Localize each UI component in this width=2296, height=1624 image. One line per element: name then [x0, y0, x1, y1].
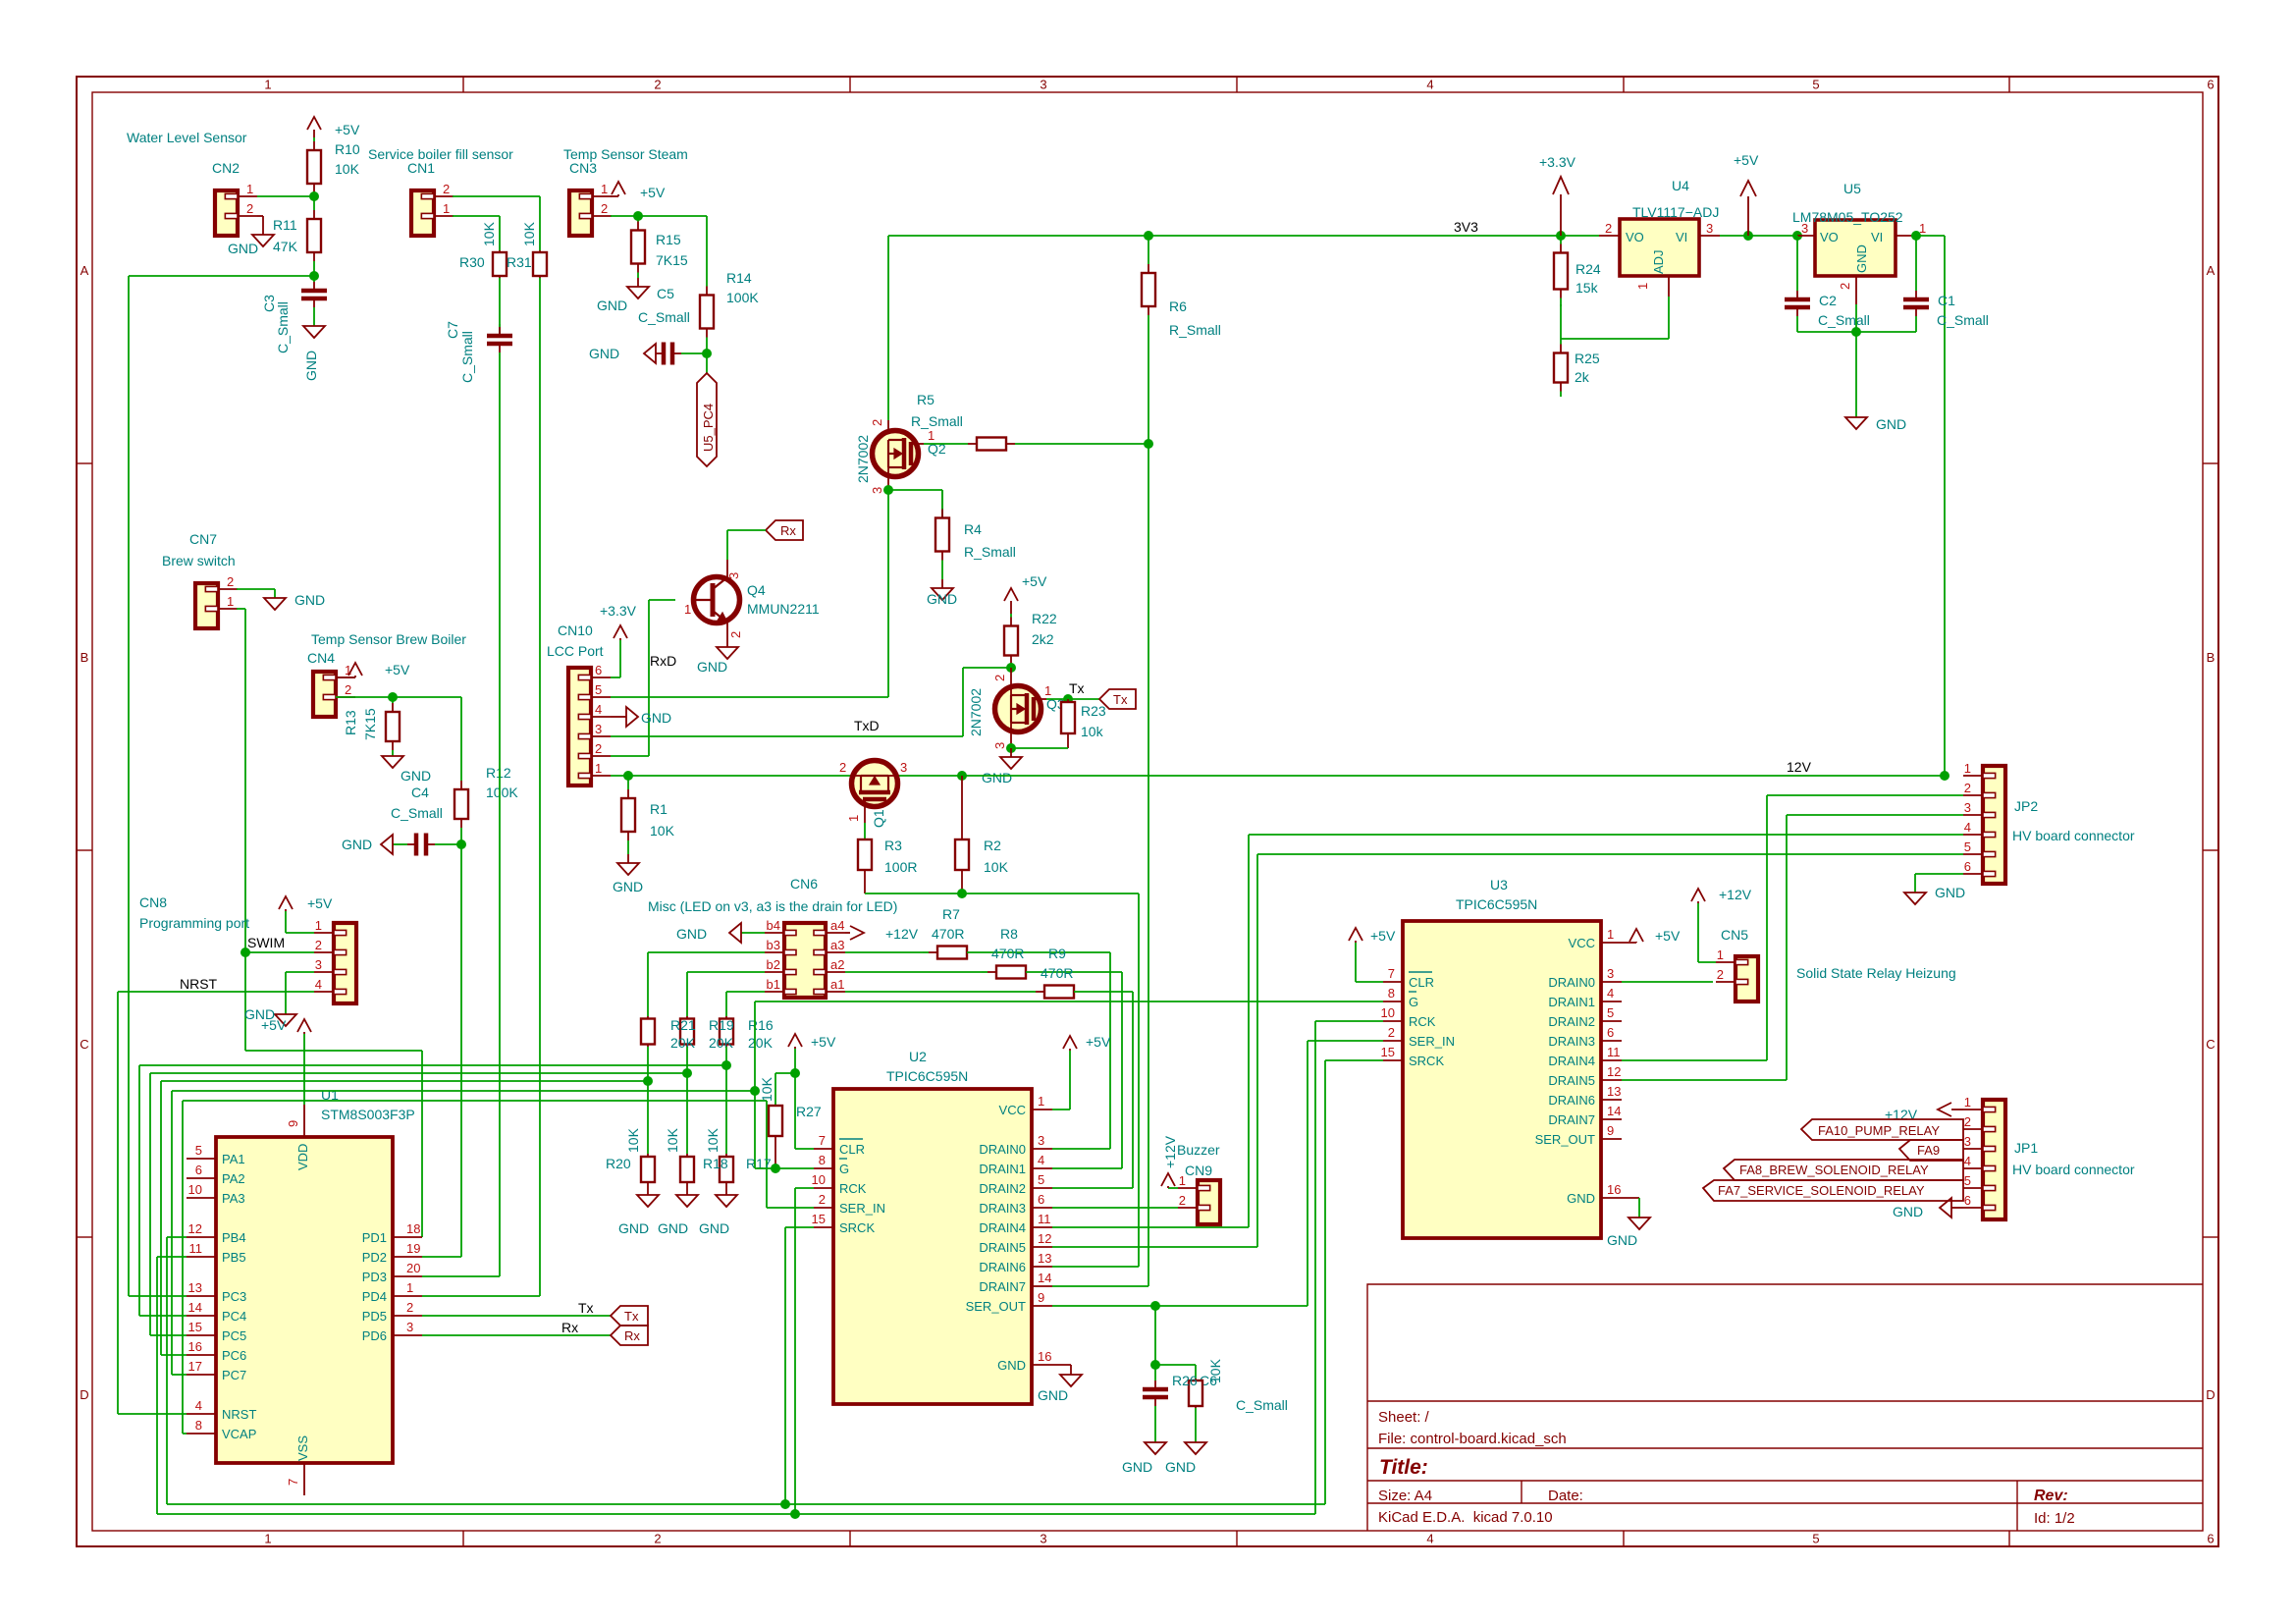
svg-text:6: 6: [1607, 1025, 1614, 1040]
svg-text:VI: VI: [1676, 230, 1687, 244]
svg-text:C: C: [2206, 1037, 2215, 1052]
U2 pin 6 DRAIN3: [1032, 1207, 1052, 1209]
svg-text:+12V: +12V: [1162, 1135, 1178, 1168]
wire R8 to DRAIN1: [1026, 971, 1122, 973]
svg-text:Q1: Q1: [871, 809, 886, 828]
svg-text:C5: C5: [657, 286, 674, 301]
svg-text:b1: b1: [767, 977, 780, 992]
svg-text:1: 1: [595, 761, 602, 776]
U1 pin 13 PC3: [187, 1295, 216, 1297]
connector CN4: [313, 672, 336, 717]
wire SER_OUT: [1052, 1305, 1308, 1307]
wire PB5 to RCK bus: [157, 1256, 187, 1258]
svg-text:2: 2: [246, 201, 253, 216]
svg-text:20: 20: [406, 1261, 420, 1275]
svg-text:3: 3: [1038, 1133, 1044, 1148]
U1 pin 15 PC5: [187, 1334, 216, 1336]
wire Q3 drain down: [1010, 723, 1012, 748]
svg-text:+5V: +5V: [385, 662, 410, 677]
svg-text:DRAIN6: DRAIN6: [979, 1260, 1026, 1274]
svg-text:10K: 10K: [759, 1076, 774, 1102]
U1 pin 9 VDD: [303, 1105, 305, 1137]
U2 pin 13 DRAIN6: [1032, 1266, 1052, 1268]
global label Rx: [766, 520, 803, 540]
global label FA9: [1899, 1140, 1963, 1161]
wire Q4 base RxD: [649, 599, 675, 601]
wire RCK bus: [157, 1513, 1315, 1515]
wire divider mid 660: [647, 1047, 649, 1154]
resistor R5: [924, 443, 968, 445]
svg-text:SRCK: SRCK: [1409, 1054, 1444, 1068]
wire a3 to R7: [845, 951, 923, 953]
svg-text:20K: 20K: [670, 1035, 696, 1051]
wire U4.VI to U5.VO: [1720, 235, 1797, 237]
svg-text:SRCK: SRCK: [839, 1220, 875, 1235]
svg-text:7: 7: [1388, 966, 1395, 981]
svg-text:R18: R18: [703, 1156, 728, 1171]
svg-text:1: 1: [1635, 283, 1650, 290]
svg-text:Rev:: Rev:: [2034, 1488, 2068, 1504]
svg-text:Id: 1/2: Id: 1/2: [2034, 1510, 2075, 1527]
wire JP2.6 gnd: [1915, 873, 1963, 875]
resistor R9: [1030, 991, 1036, 993]
svg-text:2: 2: [1717, 967, 1724, 982]
svg-text:PB4: PB4: [222, 1230, 246, 1245]
wire CN10.6 to +3.3V: [611, 677, 620, 678]
power +12V a4: [845, 932, 850, 934]
U4 pin 3 VI: [1699, 235, 1720, 237]
svg-text:15: 15: [1381, 1045, 1395, 1059]
svg-text:PD3: PD3: [362, 1270, 387, 1284]
ground R18: [686, 1185, 688, 1195]
svg-text:DRAIN4: DRAIN4: [1548, 1054, 1595, 1068]
power +5V U3 CLR: [1355, 941, 1357, 943]
svg-text:G: G: [839, 1162, 849, 1176]
U2 pin 5 DRAIN2: [1032, 1187, 1052, 1189]
svg-text:R5: R5: [917, 392, 934, 407]
junction SRCK: [780, 1499, 790, 1509]
svg-text:CN7: CN7: [189, 531, 217, 547]
junction R2 top: [957, 771, 967, 781]
junction divider 740: [721, 1060, 731, 1070]
svg-text:12V: 12V: [1787, 759, 1812, 775]
svg-text:DRAIN0: DRAIN0: [1548, 975, 1595, 990]
svg-text:4: 4: [595, 702, 602, 717]
wire CN8.1 +5V: [286, 932, 314, 934]
svg-text:2: 2: [227, 574, 234, 589]
wire divider mid 700: [686, 1047, 688, 1154]
svg-text:GND: GND: [1607, 1232, 1637, 1248]
svg-text:a4: a4: [830, 918, 844, 933]
svg-text:4: 4: [1964, 1154, 1971, 1168]
svg-text:Tx: Tx: [1113, 692, 1128, 707]
svg-text:Size: A4: Size: A4: [1378, 1488, 1432, 1504]
svg-text:2: 2: [654, 1532, 661, 1546]
svg-text:+3.3V: +3.3V: [600, 603, 637, 619]
svg-text:+5V: +5V: [1370, 928, 1396, 944]
svg-text:GND: GND: [294, 592, 325, 608]
global label U5_PC4: [697, 373, 717, 466]
svg-text:7: 7: [819, 1133, 826, 1148]
wire Q1 gate to R3: [864, 806, 866, 823]
svg-text:PB5: PB5: [222, 1250, 246, 1265]
svg-text:PC5: PC5: [222, 1328, 246, 1343]
svg-text:2N7002: 2N7002: [855, 435, 871, 483]
svg-text:Tx: Tx: [624, 1309, 639, 1324]
transistor Q1 2N7002: [852, 761, 898, 807]
resistor R1: [627, 776, 629, 789]
wire R24 to ADJ: [1560, 304, 1562, 339]
svg-text:470R: 470R: [991, 946, 1024, 961]
svg-text:Sheet: /: Sheet: /: [1378, 1409, 1430, 1426]
U3 pin 9 SER_OUT: [1601, 1138, 1622, 1140]
power +5V CN8: [285, 909, 287, 911]
svg-text:5: 5: [1607, 1005, 1614, 1020]
svg-text:13: 13: [1038, 1251, 1051, 1266]
svg-text:13: 13: [188, 1280, 202, 1295]
U3 pin 6 DRAIN3: [1601, 1040, 1622, 1042]
svg-text:10K: 10K: [481, 221, 497, 246]
resistor R30: [499, 250, 501, 252]
resistor R8: [982, 971, 988, 973]
svg-text:DRAIN1: DRAIN1: [979, 1162, 1026, 1176]
junction SER_OUT tap: [1150, 1301, 1160, 1311]
svg-text:GND: GND: [342, 837, 372, 852]
svg-text:C_Small: C_Small: [391, 805, 443, 821]
svg-text:2: 2: [870, 419, 884, 426]
wire node to DRAIN6: [1138, 893, 1140, 1267]
svg-text:2N7002: 2N7002: [968, 688, 984, 736]
svg-text:6: 6: [595, 663, 602, 677]
ground CN7: [274, 597, 276, 599]
svg-text:SER_OUT: SER_OUT: [966, 1299, 1026, 1314]
svg-text:JP2: JP2: [2014, 798, 2038, 814]
svg-text:11: 11: [1607, 1045, 1621, 1059]
U2 pin 7 CLR: [814, 1148, 833, 1150]
svg-text:PC6: PC6: [222, 1348, 246, 1363]
svg-text:2: 2: [1964, 781, 1971, 795]
svg-text:4: 4: [1607, 986, 1614, 1001]
power +5V CN4: [354, 676, 356, 677]
wire Q3 gate pin: [1041, 698, 1046, 700]
svg-text:Service boiler fill sensor: Service boiler fill sensor: [368, 146, 513, 162]
svg-text:5: 5: [1812, 1532, 1819, 1546]
svg-text:KiCad E.D.A. kicad 7.0.10: KiCad E.D.A. kicad 7.0.10: [1378, 1509, 1553, 1526]
svg-text:R12: R12: [486, 765, 511, 781]
svg-text:b4: b4: [767, 918, 780, 933]
svg-text:+12V: +12V: [1719, 887, 1752, 902]
svg-text:File: control-board.kicad_sch: File: control-board.kicad_sch: [1378, 1431, 1567, 1447]
U1 pin 17 PC7: [187, 1374, 216, 1376]
svg-text:+5V: +5V: [1022, 573, 1047, 589]
wire CN8.3 gnd: [286, 971, 314, 973]
wire TxD CN10.3: [611, 735, 963, 737]
svg-text:PC3: PC3: [222, 1289, 246, 1304]
wire PD2 from R12: [422, 1256, 461, 1258]
svg-text:+5V: +5V: [307, 895, 333, 911]
transistor Q2 2N7002: [873, 431, 919, 477]
svg-text:19: 19: [406, 1241, 420, 1256]
resistor R27: [769, 1106, 782, 1136]
svg-text:CN3: CN3: [569, 160, 597, 176]
svg-text:1: 1: [1038, 1094, 1044, 1109]
svg-text:FA7_SERVICE_SOLENOID_RELAY: FA7_SERVICE_SOLENOID_RELAY: [1718, 1183, 1925, 1198]
resistor R11: [313, 196, 315, 210]
transistor Q3 2N7002: [995, 686, 1041, 732]
U2 pin 2 SER_IN: [814, 1207, 833, 1209]
svg-text:1: 1: [264, 1532, 271, 1546]
mcu U1 body: [216, 1137, 393, 1463]
svg-text:DRAIN4: DRAIN4: [979, 1220, 1026, 1235]
junction divider 660: [643, 1076, 653, 1086]
wire DRAIN5 to JP2.3: [1622, 1079, 1787, 1081]
U2 pin 10 RCK: [814, 1187, 833, 1189]
wire DRAIN7 to R6 net: [1052, 1285, 1148, 1287]
ground R26: [1195, 1441, 1197, 1443]
ground Q4: [726, 646, 728, 648]
U3 pin 4 DRAIN1: [1601, 1001, 1622, 1002]
resistor R14: [706, 270, 708, 287]
svg-text:14: 14: [188, 1300, 202, 1315]
svg-text:R3: R3: [884, 838, 902, 853]
connector JP2: [1983, 766, 2005, 884]
wire C2 C1 gnd bus: [1797, 331, 1916, 333]
svg-text:1: 1: [1964, 761, 1971, 776]
resistor R17: [725, 1154, 727, 1157]
U3 pin 16 GND: [1601, 1197, 1639, 1199]
wire R9 to DRAIN2: [1074, 991, 1133, 993]
ic U2 body: [833, 1089, 1032, 1404]
svg-text:VCC: VCC: [999, 1103, 1026, 1117]
svg-text:GND: GND: [1893, 1204, 1923, 1219]
svg-text:470R: 470R: [1041, 965, 1073, 981]
U2 pin 14 DRAIN7: [1032, 1285, 1052, 1287]
wire divider2 to PC5: [150, 1072, 687, 1074]
U2 pin 3 DRAIN0: [1032, 1148, 1052, 1150]
global label FA10_PUMP_RELAY: [1801, 1119, 1963, 1140]
svg-text:GND: GND: [1122, 1459, 1152, 1475]
svg-text:Rx: Rx: [624, 1328, 640, 1343]
ground at CN2.2: [262, 234, 264, 236]
ground below R13: [392, 755, 394, 757]
capacitor C7: [499, 324, 501, 327]
svg-text:R25: R25: [1575, 351, 1600, 366]
wire 3V3 rail: [888, 235, 1599, 237]
svg-text:12: 12: [1038, 1231, 1051, 1246]
svg-text:3: 3: [315, 957, 322, 972]
svg-text:GND: GND: [1038, 1387, 1068, 1403]
U1 pin 4 NRST: [187, 1413, 216, 1415]
svg-text:LM78M05_TO252: LM78M05_TO252: [1792, 209, 1903, 225]
svg-text:STM8S003F3P: STM8S003F3P: [321, 1107, 415, 1122]
U3 pin 15 SRCK: [1383, 1059, 1403, 1061]
wire CN3 node to R14: [638, 215, 707, 217]
U1 pin 8 VCAP: [187, 1433, 216, 1435]
ground U5: [1855, 416, 1857, 418]
resistor R3: [858, 839, 872, 870]
svg-text:1: 1: [1717, 947, 1724, 962]
wire G net: [754, 1001, 756, 1168]
wire CN5.1 +12V: [1698, 961, 1716, 963]
wire U5.VI to 12V rail: [1916, 235, 1945, 237]
wire CN4 node to R12: [393, 696, 461, 698]
svg-text:3: 3: [726, 572, 741, 579]
svg-text:20K: 20K: [709, 1035, 734, 1051]
svg-text:4: 4: [1964, 820, 1971, 835]
U1 pin 12 PB4: [187, 1236, 216, 1238]
wire CN4.1 to +5V: [336, 677, 355, 678]
svg-text:PC4: PC4: [222, 1309, 246, 1324]
svg-text:GND: GND: [699, 1220, 729, 1236]
svg-text:C4: C4: [411, 785, 429, 800]
svg-text:GND: GND: [658, 1220, 688, 1236]
svg-text:DRAIN2: DRAIN2: [979, 1181, 1026, 1196]
junction JP2 pin1 12V: [1940, 771, 1949, 781]
U2 pin 8 G: [814, 1167, 833, 1169]
svg-text:Solid State Relay Heizung: Solid State Relay Heizung: [1796, 965, 1956, 981]
junction CN3 node: [633, 211, 643, 221]
wire b2 to R19: [687, 971, 765, 973]
svg-text:GND: GND: [618, 1220, 649, 1236]
svg-text:4: 4: [1426, 78, 1433, 92]
U3 pin 7 CLR: [1383, 981, 1403, 983]
svg-text:GND: GND: [1935, 885, 1965, 900]
ground CN8: [285, 1013, 287, 1015]
svg-text:7K15: 7K15: [656, 252, 688, 268]
svg-text:B: B: [2207, 650, 2216, 665]
svg-text:R19: R19: [709, 1017, 734, 1033]
svg-text:2: 2: [1838, 283, 1852, 290]
wire CN2.2 stub: [257, 215, 263, 217]
svg-text:FA8_BREW_SOLENOID_RELAY: FA8_BREW_SOLENOID_RELAY: [1739, 1163, 1929, 1177]
svg-text:A: A: [80, 263, 89, 278]
svg-text:PA2: PA2: [222, 1171, 245, 1186]
wire CN3.2 to node: [611, 215, 638, 217]
wire PD6 to Rx: [422, 1334, 611, 1336]
wire CN1.1 to R30: [453, 215, 500, 217]
svg-text:Rx: Rx: [561, 1320, 578, 1335]
ground C6: [1154, 1441, 1156, 1443]
resistor R18: [686, 1154, 688, 1157]
resistor R4: [941, 490, 943, 510]
wire PD3 from R31: [422, 1275, 500, 1277]
svg-text:8: 8: [819, 1153, 826, 1167]
svg-text:5: 5: [595, 682, 602, 697]
svg-text:100K: 100K: [726, 290, 759, 305]
svg-text:FA9: FA9: [1917, 1143, 1940, 1158]
svg-text:MMUN2211: MMUN2211: [747, 601, 820, 617]
svg-text:C_Small: C_Small: [459, 331, 475, 383]
svg-text:1: 1: [1607, 927, 1614, 942]
transistor Q4 MMUN2211: [694, 577, 740, 623]
junction Q3 drain gnd: [1006, 743, 1016, 753]
wire Q4 emitter: [726, 623, 728, 647]
svg-text:3: 3: [1706, 221, 1713, 236]
U2 pin 15 SRCK: [814, 1226, 833, 1228]
junction node C3: [309, 271, 319, 281]
svg-text:2: 2: [601, 201, 608, 216]
svg-text:C_Small: C_Small: [1937, 312, 1989, 328]
svg-text:CLR: CLR: [839, 1142, 865, 1157]
connector JP1: [1983, 1100, 2005, 1219]
junction SWIM: [240, 947, 250, 957]
resistor R19: [686, 1016, 688, 1019]
svg-text:VDD: VDD: [295, 1144, 310, 1170]
svg-text:+5V: +5V: [261, 1017, 287, 1033]
U3 pin 2 SER_IN: [1383, 1040, 1403, 1042]
svg-text:2: 2: [1388, 1025, 1395, 1040]
svg-text:5: 5: [1964, 839, 1971, 854]
svg-text:3: 3: [1964, 1134, 1971, 1149]
wire R23 bottom: [1011, 747, 1068, 749]
svg-text:PD6: PD6: [362, 1328, 387, 1343]
svg-text:CN8: CN8: [139, 894, 167, 910]
power +5V R22: [1010, 601, 1012, 614]
svg-text:HV board connector: HV board connector: [2012, 828, 2135, 843]
svg-text:+5V: +5V: [335, 122, 360, 137]
connector CN9: [1198, 1180, 1220, 1224]
svg-text:R_Small: R_Small: [911, 413, 963, 429]
ic U3 body: [1403, 921, 1601, 1238]
svg-text:CN6: CN6: [790, 876, 818, 892]
svg-text:TxD: TxD: [854, 718, 880, 733]
svg-text:3: 3: [1607, 966, 1614, 981]
svg-text:SER_IN: SER_IN: [1409, 1034, 1455, 1049]
power +5V U2 VCC: [1069, 1049, 1071, 1051]
U3 pin 10 RCK: [1383, 1020, 1403, 1022]
ground U2: [1070, 1374, 1072, 1376]
svg-text:DRAIN3: DRAIN3: [1548, 1034, 1595, 1049]
svg-text:DRAIN2: DRAIN2: [1548, 1014, 1595, 1029]
svg-text:2: 2: [443, 182, 450, 196]
junction CN4 node: [388, 692, 398, 702]
svg-text:GND: GND: [303, 351, 319, 381]
svg-text:10: 10: [1381, 1005, 1395, 1020]
svg-text:U5_PC4: U5_PC4: [701, 404, 716, 452]
svg-text:a2: a2: [830, 957, 844, 972]
svg-text:DRAIN1: DRAIN1: [1548, 995, 1595, 1009]
power +5V rail: [1747, 196, 1749, 236]
svg-text:GND: GND: [613, 879, 643, 894]
svg-text:18: 18: [406, 1221, 420, 1236]
svg-text:G: G: [1409, 995, 1418, 1009]
wire tap down: [1154, 1306, 1156, 1365]
svg-text:2k2: 2k2: [1032, 631, 1054, 647]
svg-text:2: 2: [1605, 221, 1612, 236]
wire b3 to R21: [648, 951, 765, 953]
svg-text:C_Small: C_Small: [275, 301, 291, 353]
resistor R12: [460, 764, 462, 781]
svg-text:100R: 100R: [884, 859, 917, 875]
wire R6 down 12V vertical: [1148, 344, 1149, 1286]
connector CN6: [784, 923, 826, 998]
wire R7 to DRAIN0: [967, 951, 1110, 953]
wire CN7.1 down: [237, 608, 245, 610]
svg-text:3: 3: [870, 487, 884, 494]
svg-text:R13: R13: [343, 710, 358, 735]
svg-text:D: D: [80, 1387, 88, 1402]
svg-text:8: 8: [195, 1418, 202, 1433]
U2 pin 16 GND: [1032, 1364, 1071, 1366]
junction gnd bus: [1851, 327, 1861, 337]
svg-text:PA1: PA1: [222, 1152, 245, 1166]
svg-text:Date:: Date:: [1548, 1488, 1583, 1504]
junction C2: [1792, 231, 1802, 241]
wire Rx to Q4 collector: [727, 529, 766, 531]
svg-text:R8: R8: [1000, 926, 1018, 942]
wire PB4 to SRCK bus: [167, 1236, 187, 1238]
svg-text:CN1: CN1: [407, 160, 435, 176]
